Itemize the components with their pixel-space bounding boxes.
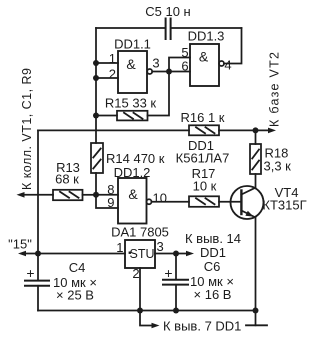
arrow "15" (left) <box>18 251 26 257</box>
wire R15 left <box>96 115 117 117</box>
wire to pins 5,6 <box>169 58 190 72</box>
svg-text:C6: C6 <box>204 259 221 274</box>
resistor R13 <box>53 190 83 200</box>
junction node DA1 pin3 / C6 <box>173 251 179 257</box>
arrow к базе VT2 (right) <box>268 128 276 134</box>
resistor R15 <box>117 111 148 121</box>
junction at R15 left <box>93 113 99 119</box>
wire R14 bottom to node and pin 9 jog <box>96 173 118 208</box>
op-amp DD1.1 gate body <box>118 51 147 93</box>
svg-text:10: 10 <box>153 191 167 206</box>
junction at DD1.1 pin 2 <box>93 75 99 81</box>
svg-text:68 к: 68 к <box>55 172 79 187</box>
svg-text:DA1 7805: DA1 7805 <box>111 225 169 240</box>
wire node to arrow (к базе VT2) <box>256 129 271 131</box>
wire node down to R15 <box>148 72 170 116</box>
junction C6 / bottom rail <box>173 308 179 314</box>
wire DA1 pin1 from "15" <box>24 253 125 255</box>
svg-text:3: 3 <box>157 239 164 254</box>
svg-text:STU: STU <box>130 247 155 261</box>
wire pin 3 output <box>152 71 169 73</box>
arrow emitter <box>245 211 253 217</box>
svg-text:К выв. 7 DD1: К выв. 7 DD1 <box>163 319 241 334</box>
svg-text:К выв. 14: К выв. 14 <box>185 231 241 246</box>
capacitor C5 <box>166 19 171 40</box>
wire left vertical bus x=96 <box>95 28 97 143</box>
svg-text:&: & <box>128 186 138 202</box>
arrow к выв.7 (right) <box>152 323 160 329</box>
svg-text:&: & <box>199 49 209 65</box>
arrow к колл. (left) <box>17 192 25 198</box>
svg-text:R15 33 к: R15 33 к <box>105 96 157 111</box>
svg-text:DD1.3: DD1.3 <box>188 29 225 44</box>
svg-text:10 к: 10 к <box>193 179 217 194</box>
terminal crossbar (к выв.7) <box>246 324 267 326</box>
svg-text:1: 1 <box>116 240 123 255</box>
svg-text:КТ315Г: КТ315Г <box>262 198 306 213</box>
wire R13 left with arrow (к колл.) <box>22 194 53 196</box>
svg-text:DD1.2: DD1.2 <box>114 165 151 180</box>
svg-text:9: 9 <box>107 195 114 210</box>
svg-text:+: + <box>164 265 172 281</box>
svg-text:2: 2 <box>109 67 116 82</box>
logic gate DD1.2 body <box>118 178 147 224</box>
svg-text:2: 2 <box>132 266 139 281</box>
svg-text:C4: C4 <box>69 260 86 275</box>
svg-text:3: 3 <box>152 56 159 71</box>
svg-text:R16 1 к: R16 1 к <box>181 110 225 125</box>
wire pin 1 <box>96 62 118 64</box>
transistor VT4 <box>231 186 264 219</box>
svg-text:4: 4 <box>224 58 231 73</box>
svg-text:× 25 В: × 25 В <box>56 288 94 303</box>
capacitor C6 <box>163 280 188 285</box>
svg-text:К базе VT2: К базе VT2 <box>268 52 282 127</box>
svg-text:"15": "15" <box>8 237 32 252</box>
wire pin 2 <box>96 77 118 79</box>
svg-text:C5 10 н: C5 10 н <box>145 4 190 19</box>
wire top rail left <box>96 27 165 29</box>
wire base <box>219 201 241 203</box>
junction emitter / bottom rail <box>253 308 259 314</box>
bottom rail <box>38 310 256 312</box>
wire DA1 pin 2 <box>139 268 141 311</box>
resistor R17 <box>189 196 219 207</box>
wire C6 vertical <box>175 254 177 311</box>
wire R13 right to node <box>83 194 97 196</box>
wire DD1.2 out to R17 <box>152 201 190 203</box>
wire top rail right <box>172 27 242 29</box>
wire DA1 pin3 to node and arrow <box>155 253 189 255</box>
svg-text:К561ЛА7: К561ЛА7 <box>176 151 230 166</box>
wire left rail down <box>37 130 39 280</box>
svg-text:× 16 В: × 16 В <box>194 287 232 302</box>
resistor R16 <box>189 125 219 135</box>
junction node R13/R14/pins 8-9 <box>93 192 99 198</box>
svg-text:DD1.1: DD1.1 <box>114 37 151 52</box>
svg-text:+: + <box>26 265 34 281</box>
bullet in DA1 <box>129 252 131 254</box>
wire к выв.7 branch with arrow <box>140 311 152 326</box>
svg-text:DD1: DD1 <box>200 245 226 260</box>
wire emitter down <box>255 217 257 325</box>
wire right drop to pin 4 <box>224 28 242 64</box>
resistor R18 <box>250 144 261 174</box>
svg-text:6: 6 <box>181 59 188 74</box>
svg-text:&: & <box>126 56 136 72</box>
logic gate DD1.3 body <box>190 44 219 86</box>
arrow к выв.14 (right) <box>186 251 194 257</box>
junction node "15" rail / DA1 pin1 <box>35 251 41 257</box>
wire long rail y=130.4 <box>38 129 189 131</box>
junction DA1 pin2 / bottom rail <box>137 308 143 314</box>
capacitor C4 <box>25 281 49 286</box>
voltage regulator DA1 box <box>125 240 155 268</box>
svg-text:R14 470 к: R14 470 к <box>106 151 165 166</box>
wire R16 right to node <box>219 129 256 131</box>
junction at DD1.1 pin 1 <box>93 60 99 66</box>
resistor R14 <box>91 143 103 173</box>
wire R18 to collector <box>255 174 257 188</box>
svg-text:3,3 к: 3,3 к <box>264 159 292 174</box>
wire pin 8 <box>96 194 118 196</box>
junction node pin3/pins 5-6/R15 <box>166 69 172 75</box>
junction node R16/R18 (base VT2) <box>253 127 259 133</box>
svg-text:1: 1 <box>109 51 116 66</box>
svg-text:К колл. VT1, C1, R9: К колл. VT1, C1, R9 <box>20 68 34 190</box>
wire node down to R18 <box>255 130 257 144</box>
